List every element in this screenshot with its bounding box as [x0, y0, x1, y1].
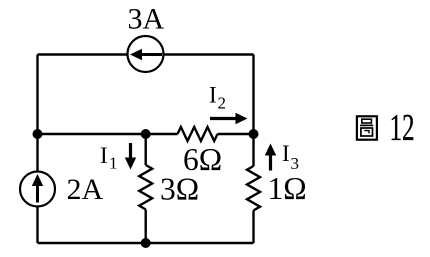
svg-text:I: I: [282, 141, 290, 166]
wire: middle horizontal right segment: [218, 133, 254, 135]
current arrow I1 (downward): [125, 143, 136, 170]
resistor 1ohm (right vertical branch): [247, 166, 260, 211]
wire: bottom horizontal: [38, 242, 254, 244]
current arrow I3 (upward): [265, 144, 276, 171]
resistor 6ohm (horizontal, middle wire): [178, 127, 218, 141]
wire: middle horizontal left segment: [38, 133, 178, 135]
svg-text:2: 2: [218, 94, 227, 113]
node dot: center middle junction: [141, 129, 151, 139]
current arrow I2 (rightward): [210, 113, 248, 124]
node dot: bottom junction: [141, 238, 151, 248]
current source 3A (top): [128, 36, 164, 72]
wire: middle vertical branch lower segment: [144, 210, 146, 244]
svg-text:3Ω: 3Ω: [160, 172, 199, 207]
current source 2A (left): [20, 172, 55, 207]
svg-text:3A: 3A: [128, 3, 165, 36]
svg-text:1: 1: [109, 154, 118, 173]
wire: middle vertical branch upper segment: [144, 134, 146, 165]
wire: right vertical upper segment: [252, 55, 254, 167]
wire: right vertical lower segment: [252, 211, 254, 244]
svg-text:1Ω: 1Ω: [268, 171, 307, 206]
wire: left vertical branch: [36, 55, 38, 244]
svg-text:2A: 2A: [67, 173, 104, 206]
node dot: right middle junction: [249, 129, 259, 139]
svg-text:3: 3: [291, 154, 300, 173]
svg-text:I: I: [209, 83, 217, 108]
svg-text:12: 12: [390, 106, 415, 148]
figure caption: character tu (picture): [357, 116, 377, 139]
node dot: left middle junction: [33, 129, 43, 139]
svg-text:I: I: [100, 143, 108, 168]
resistor 3ohm (middle vertical branch): [139, 165, 152, 210]
wire: top horizontal: [38, 53, 254, 55]
